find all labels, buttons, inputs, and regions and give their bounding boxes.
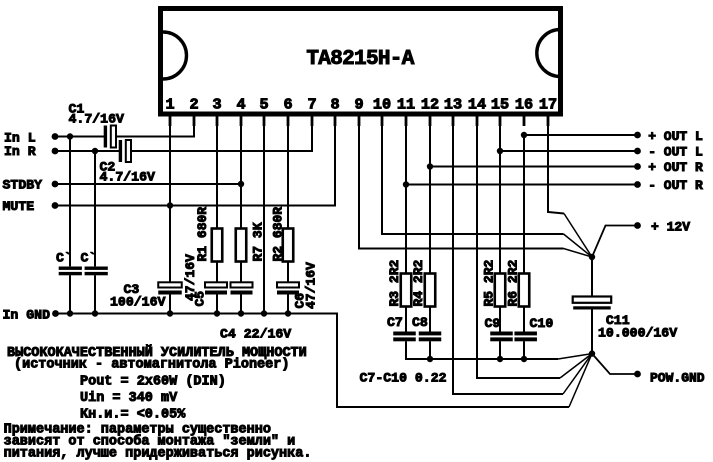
svg-text:POW.GND: POW.GND xyxy=(650,371,705,386)
svg-text:47/16V: 47/16V xyxy=(183,254,198,301)
node POW.GND terminal xyxy=(634,371,641,378)
wire pin 15 to R5 xyxy=(499,117,501,274)
wire POW.GND node to terminal xyxy=(592,354,638,374)
svg-text:R3 2R2: R3 2R2 xyxy=(387,259,402,306)
wire R5 to C9 xyxy=(499,307,501,332)
capacitor C8 xyxy=(419,332,442,336)
IC left index notch xyxy=(163,32,186,79)
wire +OUT R from pin 12 xyxy=(430,166,638,168)
wire C1 to pin 2 xyxy=(116,117,194,137)
svg-text:C8: C8 xyxy=(412,315,428,330)
wire ground bus to POW.GND node xyxy=(569,354,592,407)
node -OUT L terminal xyxy=(634,148,641,155)
svg-text:3: 3 xyxy=(212,96,221,114)
capacitor C5 xyxy=(205,282,227,287)
wire pin 16 to R6 xyxy=(523,135,525,274)
svg-text:Кн.и.= <0.05%: Кн.и.= <0.05% xyxy=(80,408,186,423)
junction pin 5 ground bus xyxy=(261,310,267,316)
node STDBY terminal xyxy=(52,181,59,188)
svg-text:C`: C` xyxy=(56,251,72,266)
wire pin 11 to R3 xyxy=(405,117,407,274)
node In R terminal xyxy=(52,148,59,155)
wire MUTE to pin 8 xyxy=(53,117,335,206)
junction C'2 ground bus xyxy=(92,310,98,316)
wire -OUT L from pin 15 xyxy=(500,150,638,152)
svg-text:Uin = 340 mV: Uin = 340 mV xyxy=(80,391,178,406)
svg-text:10: 10 xyxy=(373,96,391,114)
junction C3 ground bus xyxy=(167,310,173,316)
junction STDBY pin 4 xyxy=(238,181,244,187)
wire R4 to C8 xyxy=(429,307,431,332)
wire pin 1 to C3 xyxy=(169,117,171,283)
svg-text:4.7/16V: 4.7/16V xyxy=(100,169,155,184)
resistor R1 680R xyxy=(212,229,223,262)
junction C4 ground bus xyxy=(238,310,244,316)
node +OUT R terminal xyxy=(634,163,641,170)
svg-text:In R: In R xyxy=(4,144,36,159)
wire pin 10 to +12V node xyxy=(382,117,564,235)
wire +12V node to C11 xyxy=(591,257,593,297)
wire pin 4 to R7 xyxy=(240,117,242,229)
wire pin 3 to R1 xyxy=(216,117,218,229)
node +12V terminal xyxy=(634,222,641,229)
svg-text:TA8215H-A: TA8215H-A xyxy=(306,48,414,71)
wire pin 17 to +12V node xyxy=(548,117,564,214)
wire pin 9 to +12V node xyxy=(359,117,564,249)
wire C2 to pin 7 xyxy=(131,117,312,152)
junction MUTE pin 1 xyxy=(167,202,173,208)
capacitor C11 xyxy=(573,297,612,303)
wire C7 to cap bus xyxy=(406,341,558,359)
wire STDBY to pin 4 xyxy=(53,183,241,185)
svg-text:17: 17 xyxy=(539,96,557,114)
svg-text:7: 7 xyxy=(307,96,316,114)
wire -OUT R from pin 11 xyxy=(406,184,638,186)
svg-text:10.000/16V: 10.000/16V xyxy=(598,325,677,340)
svg-text:C7-C10 0.22: C7-C10 0.22 xyxy=(360,371,447,386)
junction In L to C'1 xyxy=(67,133,73,139)
wire pin 13 to POW.GND node xyxy=(453,117,563,395)
node POW.GND junction xyxy=(589,350,595,356)
wire In R terminal to C2 xyxy=(53,150,120,152)
resistor R2 680R xyxy=(283,229,294,262)
wire pin 6 to R2 xyxy=(287,117,289,229)
wire R7 to C4 xyxy=(240,262,242,283)
wire R3 to C7 xyxy=(405,307,407,332)
capacitor C10 xyxy=(514,332,537,336)
wire C10 to cap bus xyxy=(523,341,525,359)
svg-text:In GND: In GND xyxy=(3,308,51,323)
capacitor C'2 xyxy=(94,151,96,266)
svg-text:C7: C7 xyxy=(387,315,403,330)
node In L terminal xyxy=(52,133,59,140)
capacitor C7 xyxy=(393,332,416,336)
svg-text:13: 13 xyxy=(444,96,462,114)
resistor R7 3K xyxy=(236,229,247,262)
capacitor C9 xyxy=(490,332,513,336)
svg-text:+ OUT R: + OUT R xyxy=(648,160,703,175)
svg-text:Pout = 2x60W (DIN): Pout = 2x60W (DIN) xyxy=(80,375,226,390)
svg-text:6: 6 xyxy=(283,96,292,114)
junction In R to C'2 xyxy=(92,148,98,154)
wire R2 to C6 xyxy=(287,262,289,283)
svg-text:C`: C` xyxy=(81,251,97,266)
svg-text:8: 8 xyxy=(330,96,339,114)
svg-text:15: 15 xyxy=(491,96,509,114)
wire +12V node to terminal xyxy=(592,226,638,258)
junction pin 11 -OUT R xyxy=(403,181,409,187)
node -OUT R terminal xyxy=(634,181,641,188)
wire C8 to cap bus xyxy=(429,341,431,359)
svg-text:C4 22/16V: C4 22/16V xyxy=(220,327,291,342)
resistor R5 2R2 xyxy=(495,274,506,307)
svg-text:(источник - автомагнитола Pion: (источник - автомагнитола Pioneer) xyxy=(14,358,289,373)
node +12V junction xyxy=(589,254,595,260)
node +OUT L terminal xyxy=(634,132,641,139)
svg-text:+ OUT L: + OUT L xyxy=(648,129,703,144)
svg-text:14: 14 xyxy=(468,96,486,114)
pin numbers 1-17 xyxy=(165,96,557,114)
wire R1 to C5 xyxy=(216,262,218,283)
node In GND terminal xyxy=(52,310,59,317)
svg-text:4: 4 xyxy=(236,96,245,114)
svg-text:R2 680R: R2 680R xyxy=(271,207,286,262)
svg-text:12: 12 xyxy=(421,96,439,114)
pin stubs xyxy=(170,114,548,126)
wire pin 12 to R4 xyxy=(429,117,431,274)
svg-text:4.7/16V: 4.7/16V xyxy=(69,111,124,126)
capacitor C2 xyxy=(119,140,122,162)
junction pin 16 +OUT L xyxy=(521,132,527,138)
wire +OUT L from pin 16 xyxy=(524,134,638,136)
wire R6 to C10 xyxy=(523,307,525,332)
svg-text:16: 16 xyxy=(515,96,533,114)
svg-text:R4 2R2: R4 2R2 xyxy=(411,259,426,306)
svg-text:STDBY: STDBY xyxy=(3,178,43,193)
svg-text:R1 680R: R1 680R xyxy=(195,207,210,262)
svg-text:C10: C10 xyxy=(530,316,554,331)
svg-text:C9: C9 xyxy=(485,316,501,331)
wire In GND bus xyxy=(54,314,570,408)
svg-text:MUTE: MUTE xyxy=(3,199,35,214)
capacitor C1 xyxy=(104,126,107,148)
svg-text:2: 2 xyxy=(189,96,198,114)
capacitor C6 xyxy=(277,282,299,287)
resistor R4 2R2 xyxy=(425,274,436,307)
wire pin 14 to POW.GND node xyxy=(477,117,560,379)
wire C9 to cap bus xyxy=(499,341,501,359)
svg-text:100/16V: 100/16V xyxy=(110,295,165,310)
junction C'1 ground bus xyxy=(67,310,73,316)
IC right index notch xyxy=(537,30,561,77)
svg-text:+ 12V: + 12V xyxy=(651,220,690,235)
capacitor C3 xyxy=(158,282,182,287)
junction C8 cap bus xyxy=(427,356,433,362)
junction C5 ground bus xyxy=(214,310,220,316)
svg-text:R5 2R2: R5 2R2 xyxy=(482,259,497,306)
wire C11 to POW.GND node xyxy=(591,310,593,354)
junction C10 cap bus xyxy=(521,356,527,362)
capacitor C'1 xyxy=(69,137,71,267)
resistor R3 2R2 xyxy=(401,274,412,307)
junction C9 cap bus xyxy=(497,356,503,362)
resistor R6 2R2 xyxy=(519,274,530,307)
junction pin 12 +OUT R xyxy=(427,163,433,169)
wire cap bus to POW.GND node xyxy=(558,354,592,359)
svg-text:9: 9 xyxy=(354,96,363,114)
svg-text:1: 1 xyxy=(165,96,174,114)
wire pin 5 to ground bus xyxy=(263,117,265,314)
capacitor C4 xyxy=(231,282,253,287)
junction pin 15 -OUT L xyxy=(497,148,503,154)
wire In L terminal to C1 xyxy=(53,136,105,138)
op-amp U1 TA8215H-A body xyxy=(161,9,561,115)
node MUTE terminal xyxy=(52,202,59,209)
svg-text:11: 11 xyxy=(397,96,415,114)
svg-text:- OUT R: - OUT R xyxy=(648,178,703,193)
svg-text:47/16V: 47/16V xyxy=(304,262,319,309)
junction C6 ground bus xyxy=(285,310,291,316)
svg-text:R6 2R2: R6 2R2 xyxy=(505,259,520,306)
svg-text:- OUT L: - OUT L xyxy=(648,145,703,160)
svg-text:питания, лучше придерживаться: питания, лучше придерживаться рисунка. xyxy=(4,447,312,462)
svg-text:5: 5 xyxy=(259,96,268,114)
